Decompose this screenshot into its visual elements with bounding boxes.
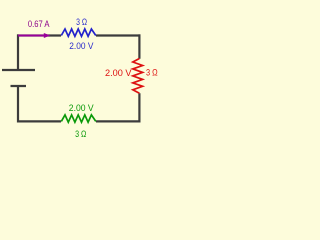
svg-text:2.00 V: 2.00 V [69,41,94,51]
svg-text:0.67 A: 0.67 A [28,19,50,29]
svg-text:3 Ω: 3 Ω [76,17,87,27]
svg-text:2.00 V: 2.00 V [105,68,132,78]
svg-text:2.00 V: 2.00 V [69,103,95,113]
svg-text:3 Ω: 3 Ω [75,129,86,139]
svg-text:3 Ω: 3 Ω [146,68,158,78]
